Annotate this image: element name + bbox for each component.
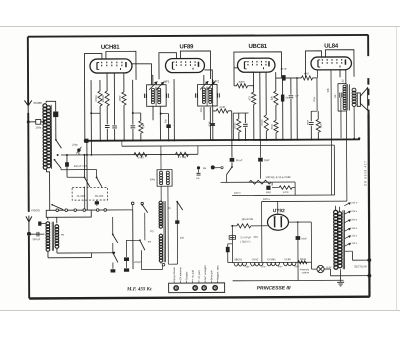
svg-text:225 v: 225 v (351, 210, 358, 213)
svg-text:+ Ht. parl: + Ht. parl (192, 270, 195, 281)
svg-text:DR.5539.417: DR.5539.417 (363, 160, 367, 185)
svg-text:P0: P0 (61, 233, 65, 237)
svg-text:FB: FB (203, 167, 206, 170)
svg-text:150p: 150p (35, 125, 41, 129)
svg-text:UL84: UL84 (284, 258, 291, 261)
svg-text:1nF: 1nF (335, 94, 337, 99)
svg-text:M.F. 455 Kc: M.F. 455 Kc (126, 287, 153, 292)
svg-text:UCH81: UCH81 (101, 45, 120, 51)
svg-text:EC/BE: EC/BE (34, 101, 43, 105)
svg-text:25nF: 25nF (308, 119, 310, 125)
svg-text:UL84: UL84 (324, 44, 339, 50)
svg-text:0,1μ: 0,1μ (313, 96, 316, 101)
svg-text:8200: 8200 (239, 80, 245, 84)
svg-text:220pF: 220pF (133, 261, 142, 264)
svg-text:245 v~: 245 v~ (351, 201, 359, 204)
svg-text:MF1: MF1 (164, 80, 170, 84)
svg-text:cadran: cadran (302, 271, 310, 274)
svg-text:UY92: UY92 (252, 258, 259, 261)
svg-text:Tonalite: Tonalite (185, 271, 188, 280)
svg-text:100 v.: 100 v. (263, 197, 270, 201)
svg-text:RAD: RAD (266, 191, 271, 194)
svg-text:NAT: NAT (304, 71, 309, 75)
svg-text:110 v: 110 v (351, 242, 357, 245)
svg-text:40v~: 40v~ (278, 265, 284, 268)
svg-text:4nF: 4nF (196, 178, 200, 180)
svg-text:4700: 4700 (283, 191, 289, 194)
svg-text:1000: 1000 (321, 123, 323, 129)
svg-text:390p: 390p (150, 178, 156, 181)
svg-text:4,7 MΩ: 4,7 MΩ (178, 155, 187, 159)
svg-text:100 v: 100 v (234, 191, 241, 195)
svg-text:2 x 50 μF: 2 x 50 μF (240, 235, 251, 239)
svg-text:UF89: UF89 (180, 44, 195, 50)
svg-text:100: 100 (180, 237, 185, 240)
svg-text:CA antenne: CA antenne (179, 267, 182, 281)
svg-text:UBC81: UBC81 (234, 258, 243, 261)
svg-text:27v~: 27v~ (261, 265, 267, 268)
svg-text:SECTEUR: SECTEUR (354, 264, 367, 268)
svg-text:15nF: 15nF (264, 159, 270, 162)
svg-text:UBC81: UBC81 (248, 44, 267, 50)
svg-text:R232: R232 (300, 258, 307, 261)
svg-text:UCH81: UCH81 (267, 258, 276, 261)
svg-text:47nF: 47nF (209, 121, 211, 127)
svg-text:MF2: MF2 (213, 79, 219, 83)
svg-text:PL.GO: PL.GO (77, 194, 85, 198)
svg-text:PO/GO: PO/GO (31, 208, 40, 212)
svg-text:16v~: 16v~ (245, 266, 251, 269)
svg-text:230 pF: 230 pF (32, 238, 40, 241)
svg-text:0,22: 0,22 (342, 79, 344, 84)
svg-text:1000: 1000 (118, 95, 122, 101)
svg-text:Bras mixeur: Bras mixeur (173, 267, 176, 281)
svg-text:40Ω: 40Ω (253, 236, 258, 239)
svg-text:( 350 V ): ( 350 V ) (240, 240, 250, 244)
svg-text:20000: 20000 (101, 94, 105, 102)
svg-text:15000: 15000 (262, 119, 264, 126)
svg-text:390 pF ±2%: 390 pF ±2% (74, 165, 88, 168)
svg-text:Ref. enregistr: Ref. enregistr (204, 265, 207, 280)
svg-text:145 v: 145 v (351, 227, 358, 230)
svg-text:50 nF: 50 nF (236, 159, 243, 162)
svg-text:165 Ω 5W: 165 Ω 5W (241, 217, 253, 221)
svg-text:475: 475 (247, 96, 251, 101)
svg-text:1 MΩ: 1 MΩ (137, 155, 143, 159)
svg-text:Bras gris: Bras gris (210, 270, 213, 281)
svg-text:47kΩ: 47kΩ (94, 95, 98, 101)
svg-text:125 v: 125 v (351, 234, 358, 237)
svg-text:OL.GO: OL.GO (95, 194, 103, 198)
svg-text:50nF: 50nF (301, 237, 307, 240)
svg-text:100p: 100p (201, 107, 203, 113)
svg-text:4740: 4740 (219, 105, 225, 109)
svg-text:UY92: UY92 (273, 208, 285, 214)
svg-text:Magnet. spec: Magnet. spec (216, 264, 219, 280)
svg-text:20 nF: 20 nF (280, 67, 287, 71)
svg-text:200 v: 200 v (351, 218, 358, 221)
svg-text:22k: 22k (270, 95, 274, 100)
svg-text:270p: 270p (72, 144, 78, 147)
svg-text:PRINCESSE III: PRINCESSE III (257, 285, 291, 291)
svg-text:500 KΩ, 47 Ω à 2 MΩ: 500 KΩ, 47 Ω à 2 MΩ (266, 175, 291, 179)
svg-text:15000: 15000 (235, 122, 237, 129)
svg-text:5600: 5600 (272, 123, 274, 129)
svg-text:- Ht. parl: - Ht. parl (198, 270, 201, 280)
